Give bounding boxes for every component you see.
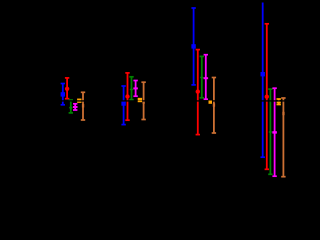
cluster 2 green errorbar (129, 77, 133, 100)
cluster 3 tan errorbar (212, 78, 216, 134)
cluster 1 blue errorbar (61, 84, 65, 105)
cluster 2 red errorbar (125, 73, 129, 120)
cluster 4 magenta errorbar (272, 88, 277, 176)
cluster 3 red errorbar (196, 50, 200, 135)
cluster 2 blue errorbar (121, 86, 125, 125)
cluster 3 orange marker (drawn over reference line) (209, 101, 213, 104)
cluster 1 magenta errorbar (73, 104, 78, 110)
cluster 4 green errorbar (268, 89, 272, 174)
cluster 4 blue errorbar (top clipped, no top cap) (261, 3, 265, 158)
cluster 2 orange bottom cap redrawn over reference line (138, 100, 142, 102)
cluster 4 tan errorbar (281, 98, 285, 177)
cluster 4 orange errorbar (277, 99, 281, 105)
cluster 3 magenta errorbar (204, 55, 209, 99)
cluster 4 red errorbar (265, 24, 269, 170)
cluster 2 magenta errorbar (133, 81, 138, 97)
cluster 1 orange errorbar (77, 99, 81, 102)
cluster 1 green errorbar (69, 100, 73, 113)
cluster 3 blue errorbar (191, 8, 195, 85)
cluster 1 tan errorbar (81, 92, 85, 120)
cluster 3 green errorbar (200, 56, 204, 97)
cluster 2 tan errorbar (141, 82, 145, 119)
cluster 2 orange errorbar (138, 99, 142, 102)
black reference line y=0 overlay (0, 100, 314, 101)
cluster 1 red errorbar (65, 78, 69, 99)
